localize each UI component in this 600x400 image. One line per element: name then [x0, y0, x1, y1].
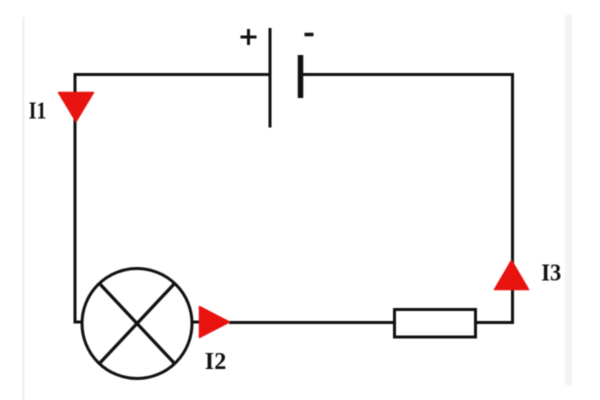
- wire top left (battery + side): [75, 73, 269, 76]
- wire lamp right connection: [192, 321, 201, 324]
- wire right vertical: [511, 73, 514, 324]
- battery minus label: [305, 33, 314, 37]
- wire left vertical: [74, 73, 77, 322]
- battery negative plate (short thick): [298, 55, 304, 98]
- faint page edge line left: [22, 17, 25, 400]
- svg-text:I3: I3: [541, 259, 561, 286]
- current arrow I1 (down): [59, 93, 94, 122]
- wire top right (battery - side): [302, 73, 512, 76]
- wire bottom (lamp to resistor): [229, 321, 394, 324]
- lamp cross line 2: [99, 283, 176, 365]
- svg-text:I2: I2: [205, 348, 227, 375]
- battery positive plate (long thin): [269, 28, 272, 128]
- battery plus label: [241, 29, 257, 45]
- resistor R1: [395, 310, 476, 338]
- faint page edge band right: [565, 15, 572, 385]
- lamp cross line 1: [99, 283, 176, 365]
- wire lamp left connection: [74, 321, 84, 324]
- current arrow I3 (up): [495, 261, 529, 290]
- current arrow I2 (right): [200, 307, 230, 338]
- wire resistor to right corner: [476, 321, 514, 324]
- lamp L1 (circle with X): [82, 269, 192, 379]
- svg-text:I1: I1: [29, 98, 47, 125]
